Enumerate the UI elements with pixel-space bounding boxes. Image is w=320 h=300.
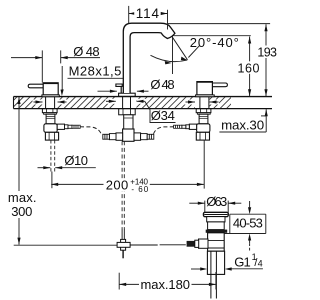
dimension Ø48 spout base: arrows bbox=[98, 90, 117, 92]
drain inner pipe lines bbox=[210, 251, 212, 298]
reference line spout outlet for 160 bbox=[174, 35, 251, 37]
spout tee block bbox=[123, 129, 134, 141]
svg-text:max.: max. bbox=[8, 190, 37, 205]
spout pull-rod knob bbox=[116, 84, 122, 86]
valve V1 washer ring bbox=[44, 113, 57, 115]
drain neck bbox=[207, 217, 225, 222]
dimension 114: extension lines bbox=[128, 6, 130, 23]
svg-text:4: 4 bbox=[258, 258, 263, 268]
valve V2 threaded shank bbox=[199, 114, 208, 124]
angle 20-40: tilted ray bbox=[173, 37, 188, 60]
svg-text:160: 160 bbox=[238, 62, 260, 76]
dimension max.30 arrow up below deck bbox=[265, 109, 267, 132]
spout shank through deck bbox=[122, 97, 124, 109]
valve V1 shank through deck bbox=[45, 97, 47, 109]
svg-text:M28x1,5: M28x1,5 bbox=[69, 63, 122, 78]
svg-text:Ø63: Ø63 bbox=[206, 194, 227, 209]
valve V1 hose nipple segment 2 bbox=[68, 125, 72, 128]
valve V1 mounting nut below deck bbox=[42, 109, 57, 113]
pop-up horizontal rod bbox=[130, 244, 158, 246]
svg-text:200: 200 bbox=[106, 177, 129, 192]
deck hatched section right of right valve bbox=[210, 97, 232, 108]
valve V1 base flange bbox=[42, 95, 59, 97]
pop-up rod from spout dashed bbox=[121, 141, 123, 229]
drain lever ball knob dark bbox=[187, 241, 195, 247]
dimension max.180 bbox=[118, 273, 120, 290]
label 114 bbox=[134, 7, 161, 19]
dimension Ø10 arrows and label bbox=[38, 167, 51, 169]
svg-text:300: 300 bbox=[11, 204, 32, 219]
valve V2 flexible hose dashed bbox=[153, 127, 174, 135]
dimension Ø48 left extension lines bbox=[41, 50, 43, 82]
pop-up rod solid lower part bbox=[121, 229, 123, 239]
valve V2 washer ring bbox=[197, 113, 210, 115]
valve V2 elbow block bbox=[197, 124, 210, 133]
angle 20-40: arc with arrowheads bbox=[151, 55, 188, 61]
svg-text:20°-40°: 20°-40° bbox=[190, 35, 239, 50]
valve V1 hose nipple hex bbox=[57, 124, 64, 129]
valve V1 copper tail pipe dashed bbox=[50, 140, 52, 171]
dimension 200 line with arrows bbox=[51, 183, 104, 185]
hole arrows at left valve bbox=[33, 100, 44, 105]
svg-text:G1: G1 bbox=[234, 254, 251, 269]
valve V1 body above deck bbox=[43, 83, 58, 95]
valve V2 body above deck bbox=[197, 82, 213, 95]
label max.30 with underline bbox=[219, 131, 266, 133]
valve V1 elbow block bbox=[44, 124, 57, 133]
svg-text:114: 114 bbox=[136, 6, 160, 21]
dimension 193 vertical line and arrows bbox=[265, 24, 267, 96]
drain threaded tailpipe G1 1/4 bbox=[207, 251, 224, 274]
tee right crimp sleeve bbox=[147, 134, 154, 139]
valve V1 tail extension line bbox=[51, 172, 53, 189]
valve V2 lever handle (right) bbox=[212, 83, 227, 87]
spout tube and curved body bbox=[123, 23, 175, 93]
tee right fitting segment bbox=[141, 134, 148, 140]
svg-text:max.180: max.180 bbox=[141, 277, 191, 292]
valve V2 tail line bbox=[203, 140, 205, 189]
drain upper body bbox=[208, 222, 225, 230]
deck hatched section between left valve and spout bbox=[58, 97, 116, 108]
valve V1 hose crimp sleeve bbox=[72, 125, 80, 128]
valve V1 threaded shank bbox=[46, 114, 55, 124]
deck hatched section left of left valve bbox=[14, 97, 43, 108]
valve V2 hose nipple hex bbox=[189, 124, 196, 129]
dimension Ø48 left handle: line and arrows bbox=[11, 57, 42, 59]
tee left fitting hex bbox=[116, 133, 123, 140]
angle 20-40: vertical ray at spout tip bbox=[172, 36, 174, 74]
valve V1 lever handle (left) bbox=[28, 84, 43, 88]
dimension 114: line and arrows bbox=[129, 13, 168, 15]
dimension G1 1/4 arrows bbox=[191, 268, 200, 270]
svg-text:- 60: - 60 bbox=[131, 185, 148, 194]
svg-text:Ø 48: Ø 48 bbox=[73, 44, 99, 59]
spout sleeve below deck bbox=[124, 115, 133, 129]
reference line spout top for 193 bbox=[168, 23, 270, 25]
deck hatched section between spout and right valve bbox=[137, 97, 196, 108]
label 200 bbox=[104, 178, 131, 191]
drain lever housing bbox=[199, 239, 209, 248]
spout mounting nut below deck bbox=[119, 109, 136, 115]
rod coupler cross bbox=[121, 239, 126, 250]
valve V1 lower elbow nut bbox=[45, 132, 58, 140]
svg-text:Ø34: Ø34 bbox=[151, 108, 175, 123]
angle 20-40: leader from label bbox=[188, 46, 199, 58]
valve V2 hose nipple segment bbox=[186, 125, 190, 129]
bottom reference line at supply level bbox=[14, 244, 118, 246]
dimension 40-53 outside arrows bbox=[249, 201, 251, 207]
spout base flange bbox=[119, 93, 136, 96]
svg-text:193: 193 bbox=[257, 46, 277, 60]
tee left fitting segment bbox=[109, 134, 116, 140]
deck top surface line bbox=[14, 96, 273, 98]
valve V2 base flange bbox=[196, 95, 215, 97]
label 160 bbox=[236, 61, 261, 74]
svg-text:Ø 48: Ø 48 bbox=[150, 77, 174, 92]
tee right fitting hex bbox=[134, 133, 141, 140]
label max. 300 bbox=[6, 191, 39, 218]
svg-text:max.30: max.30 bbox=[221, 118, 264, 133]
hole arrows at spout with Ø34 leader bbox=[106, 99, 117, 104]
valve V1 body top thick edge bbox=[43, 82, 59, 84]
tee left crimp sleeve bbox=[103, 134, 110, 139]
dimension 40-53 box with reference lines bbox=[230, 213, 266, 215]
valve V2 body top thick edge bbox=[197, 81, 213, 83]
deck left edge bbox=[13, 97, 15, 109]
label 193 bbox=[256, 46, 279, 59]
dimension max.300 vertical line bbox=[18, 97, 20, 245]
hole arrows at right valve bbox=[185, 100, 196, 105]
valve V2 hose crimp sleeve bbox=[174, 125, 182, 128]
drain seal ring dark bbox=[206, 230, 228, 233]
dimension Ø63 arrows and extension lines bbox=[189, 202, 205, 204]
deck bottom line bbox=[14, 108, 273, 110]
svg-text:Ø10: Ø10 bbox=[64, 153, 88, 168]
drain body bbox=[208, 233, 225, 251]
valve V2 lower elbow nut bbox=[196, 132, 209, 140]
valve V1 flexible hose dashed bbox=[80, 127, 102, 135]
drain flange Ø63 bbox=[203, 212, 228, 216]
valve V2 shank through deck bbox=[199, 97, 201, 109]
svg-text:40-53: 40-53 bbox=[233, 215, 263, 230]
valve V2 mounting nut below deck bbox=[196, 109, 211, 113]
valve V1 hose nipple segment bbox=[65, 125, 69, 129]
valve V2 hose nipple segment 2 bbox=[182, 125, 186, 128]
rod stub below coupler bbox=[122, 250, 124, 258]
dimension 160 vertical line and arrows bbox=[249, 37, 251, 97]
